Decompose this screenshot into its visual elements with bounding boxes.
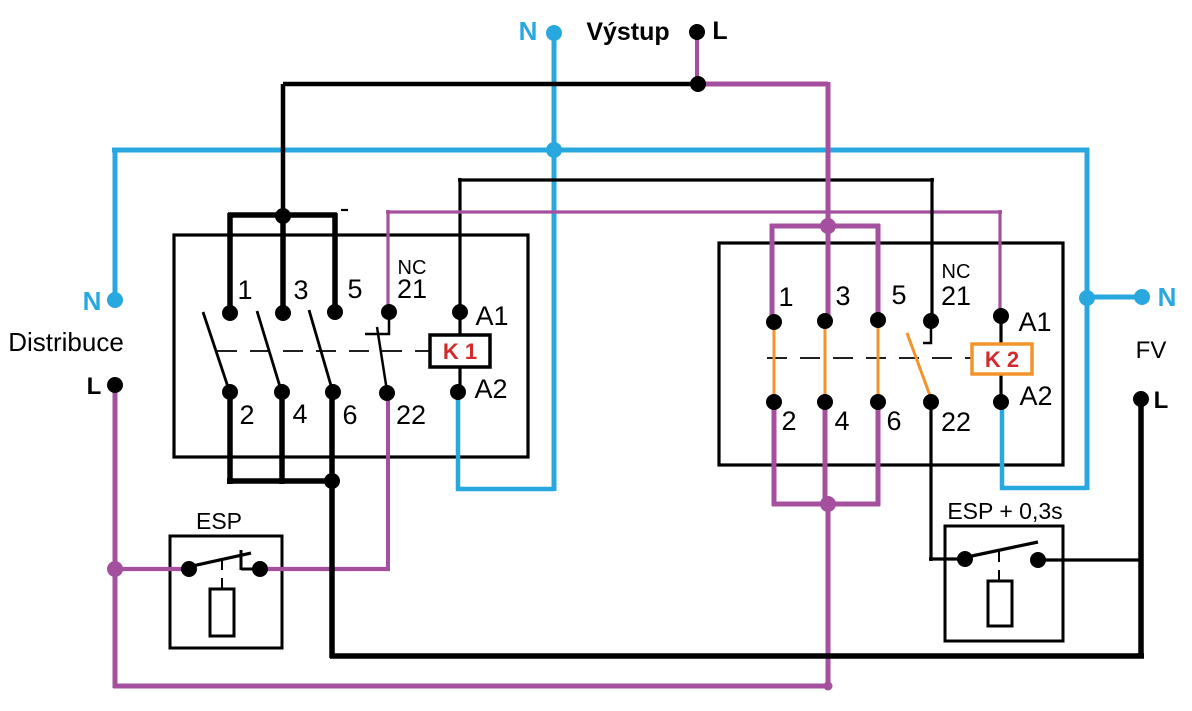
svg-text:ESP: ESP <box>196 508 242 534</box>
node K2 pin 3 <box>817 313 833 329</box>
svg-text:Výstup: Výstup <box>586 18 669 46</box>
node K1 pin 4 <box>274 384 290 400</box>
svg-text:N: N <box>1158 282 1177 312</box>
svg-text:21: 21 <box>397 274 427 304</box>
svg-text:3: 3 <box>293 275 308 305</box>
wire purple horizontal NC21-K1 to A1-K2 <box>386 210 1002 213</box>
stray ink dash <box>341 209 348 211</box>
svg-text:L: L <box>1154 387 1169 414</box>
K2 dashed actuator line <box>767 357 972 359</box>
node K2 pin 4 <box>817 394 833 410</box>
svg-text:L: L <box>712 17 727 45</box>
svg-text:2: 2 <box>781 406 796 436</box>
ESP switch blade <box>192 553 251 566</box>
node K1 pin 1 <box>222 305 238 321</box>
wire K2 contact 2 down <box>772 402 777 506</box>
relay ESP box <box>170 536 282 648</box>
wire purple down to K2 A1 <box>998 210 1001 316</box>
wire K2 contact 4 down <box>823 402 828 506</box>
wire into ESP+0,3s left <box>929 557 967 560</box>
svg-text:K 2: K 2 <box>985 347 1019 372</box>
node N Distribuce <box>107 292 123 308</box>
K1 NC blade 21-22 <box>377 327 387 391</box>
svg-text:22: 22 <box>396 400 426 430</box>
wire K2 A1 to coil <box>999 316 1002 344</box>
svg-text:A2: A2 <box>474 374 507 404</box>
wire purple to ESP left <box>113 567 189 571</box>
node purple junction K2 bottom <box>820 496 836 512</box>
node K1 pin A2 <box>450 384 466 400</box>
node N junction top bus <box>546 142 562 158</box>
wire K1 bottom bus <box>227 478 335 484</box>
wire L purple drop from Vystup L <box>695 35 699 86</box>
wire bottom long black to FV L <box>330 653 1144 659</box>
wire N main horizontal (cyan bus) <box>112 148 1089 153</box>
wire A1-K1 to NC21-K2 horizontal <box>458 178 934 181</box>
node K1 pin 5 <box>327 304 343 320</box>
wire K1 drop to contact 1 <box>227 213 233 313</box>
wire K1 contact 4 down <box>279 392 285 484</box>
wire purple ESP right to K1 22 <box>260 567 390 571</box>
coil K1 box <box>430 335 490 367</box>
wire K2 contact 6 down <box>876 402 881 506</box>
node K2 pin 2 <box>766 394 782 410</box>
svg-text:A1: A1 <box>475 301 508 331</box>
svg-text:K 1: K 1 <box>443 339 477 364</box>
svg-text:4: 4 <box>834 406 849 436</box>
wire K2 drop to contact 3 <box>826 224 831 321</box>
ESP+0,3s switch blade <box>967 542 1038 557</box>
wire K2 drop to contact 1 <box>770 224 775 322</box>
node K2 pin A1 <box>993 308 1009 324</box>
wire purple left vertical Distribuce L <box>113 386 118 688</box>
svg-text:1: 1 <box>778 282 793 312</box>
node ESP contact left <box>181 561 197 577</box>
node Vystup L <box>689 24 705 40</box>
wire K1 drop to contact 3 <box>280 213 286 313</box>
wire L Vystup black horizontal <box>283 82 700 87</box>
svg-text:NC: NC <box>942 261 971 283</box>
node purple small bottom junction <box>824 682 833 691</box>
node K2 pin A2 <box>993 394 1009 410</box>
node N FV <box>1134 289 1150 305</box>
wire N to K2 A2 <box>1002 400 1087 488</box>
svg-text:1: 1 <box>237 275 252 305</box>
svg-text:6: 6 <box>342 400 357 430</box>
wire purple from K1 NC21 up <box>386 210 389 311</box>
wire N left drop to Distribuce <box>113 148 118 300</box>
wire K1 drop to contact 5 <box>332 213 338 312</box>
wire K1 coil to A2 <box>458 367 461 392</box>
wire N to K1 A2 <box>458 390 554 489</box>
wire K2 drop to contact 5 <box>876 224 881 320</box>
relay ESP+0,3s box <box>945 526 1063 641</box>
wire K1 contact 2 down <box>227 392 233 484</box>
K1 NC hook at 21 <box>365 312 389 334</box>
svg-text:A1: A1 <box>1018 307 1051 337</box>
wire black vertical feed to K1 bus <box>281 84 286 219</box>
wire K1 A1 to coil <box>458 312 461 335</box>
svg-text:FV: FV <box>1136 337 1167 364</box>
ESP switch stop bar <box>240 550 243 570</box>
wire K2 coil to A2 <box>999 374 1002 402</box>
ESP actuator dashes <box>221 560 223 590</box>
svg-text:4: 4 <box>292 399 307 429</box>
wire K2 22 down <box>929 402 932 561</box>
K1 blade contact 5-6 <box>309 310 332 389</box>
contactor K1 box <box>174 235 528 457</box>
K2 NC orange blade 21-22 <box>907 333 932 401</box>
svg-text:6: 6 <box>886 406 901 436</box>
wire ESP+0,3s right to L line <box>1038 558 1143 561</box>
node K1 pin 3 <box>275 305 291 321</box>
node K2 pin 6 <box>870 394 886 410</box>
node K2 pin 21 <box>923 313 939 329</box>
K2 orange blade 3-4 <box>824 321 827 402</box>
wire purple up to K1 22 <box>386 393 390 571</box>
node K1 pin 2 <box>222 384 238 400</box>
wire FV L vertical <box>1138 399 1144 658</box>
contactor K2 box <box>719 243 1063 465</box>
node K2 pin 5 <box>870 312 886 328</box>
svg-text:A2: A2 <box>1019 381 1052 411</box>
node ESP+0,3s contact left <box>957 551 973 567</box>
wire N top vertical from Vystup N <box>552 33 557 491</box>
wire K2 top bus purple <box>770 224 880 229</box>
node K2 pin 1 <box>766 314 782 330</box>
wire N stub to FV N terminal <box>1087 295 1142 300</box>
node junction L/black <box>690 76 706 92</box>
ESP+0,3s actuator dashes <box>998 551 1000 581</box>
wire purple bottom long <box>113 684 830 689</box>
wire purple vertical feed K2 <box>826 82 831 229</box>
svg-text:3: 3 <box>835 281 850 311</box>
node K1 pin A1 <box>452 304 468 320</box>
wire K2 bottom bus purple <box>772 502 880 507</box>
svg-text:N: N <box>519 16 538 46</box>
node ESP contact right <box>252 561 268 577</box>
ESP+0,3s coil rectangle <box>988 581 1012 626</box>
node K2 pin 22 <box>923 394 939 410</box>
node purple junction K2 top feed <box>820 218 836 234</box>
node K1 pin 22 <box>379 385 395 401</box>
svg-text:L: L <box>87 373 102 400</box>
ESP coil rectangle <box>210 589 234 636</box>
node K1 pin 6 <box>325 384 341 400</box>
svg-text:21: 21 <box>941 281 971 311</box>
svg-text:5: 5 <box>347 274 362 304</box>
node FV L <box>1133 391 1149 407</box>
node N junction right <box>1079 290 1095 306</box>
node K1 pin 21 <box>381 304 397 320</box>
wire K1 contact 6 down long <box>329 392 335 658</box>
wire purple horizontal to K2 feed <box>696 82 828 87</box>
wire K1 A1 up <box>458 178 461 313</box>
svg-text:2: 2 <box>239 400 254 430</box>
ESP switch bar elbow <box>241 568 259 571</box>
wire N right vertical to FV side <box>1085 148 1090 490</box>
svg-text:Distribuce: Distribuce <box>8 327 124 357</box>
svg-text:N: N <box>83 286 102 316</box>
node purple junction ESP branch <box>107 561 123 577</box>
wire K1 top bus <box>228 212 337 218</box>
svg-text:5: 5 <box>891 280 906 310</box>
K2 orange blade 5-6 <box>877 320 880 402</box>
node N top (cyan) <box>546 25 562 41</box>
K2 orange blade 1-2 <box>773 322 776 402</box>
node K1 bottom junction <box>324 473 340 489</box>
wire down to K2 NC21 <box>930 178 933 321</box>
K1 blade contact 3-4 <box>257 311 281 390</box>
coil K2 box (orange) <box>972 344 1032 374</box>
svg-text:22: 22 <box>941 407 971 437</box>
node ESP+0,3s contact right <box>1030 552 1046 568</box>
svg-text:ESP + 0,3s: ESP + 0,3s <box>947 498 1062 524</box>
node Distribuce L <box>107 377 123 393</box>
node K1 bus junction <box>275 208 291 224</box>
wire purple down from K2 bottom bus <box>826 502 831 688</box>
K2 NC hook at 21 <box>923 321 931 343</box>
K1 dashed actuator line <box>217 350 430 352</box>
K1 blade contact 1-2 <box>203 312 229 390</box>
